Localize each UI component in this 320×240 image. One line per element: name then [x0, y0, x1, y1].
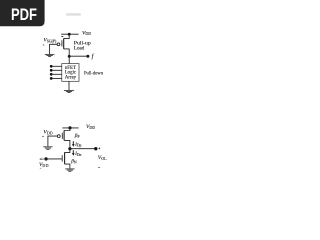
svg-text:VDD: VDD	[43, 130, 52, 136]
wire: gate lead to VSG source	[50, 44, 58, 54]
input dot D	[50, 77, 53, 80]
svg-text:VDD: VDD	[39, 162, 49, 168]
transistor M1 PMOS channel	[63, 38, 65, 49]
input wire B	[51, 69, 62, 71]
node dot at VDD	[68, 33, 71, 36]
wire: VDD to PMOS source	[64, 34, 69, 38]
transistor M1 PMOS gate bar	[61, 40, 63, 46]
supply tick	[61, 36, 63, 38]
node dot output	[68, 147, 71, 150]
input dot A	[50, 65, 53, 68]
wire: NMOS source to ground	[65, 164, 70, 168]
wire: PMOS gate to left VDD / ground	[48, 136, 58, 146]
nFET logic array box	[62, 64, 79, 82]
input dot C	[50, 73, 53, 76]
PDF badge	[0, 0, 45, 26]
svg-text:Load: Load	[74, 47, 85, 52]
current arrow IDp	[72, 141, 74, 144]
input arrow tick	[40, 158, 44, 160]
VDD rail (top)	[61, 33, 78, 35]
ground (pull-down)	[64, 91, 74, 93]
wire: box bottom to ground	[68, 81, 70, 90]
minus sign (left VDD)	[42, 135, 44, 137]
wire: output node to VOL terminal	[70, 148, 96, 150]
svg-text:Pull-down: Pull-down	[84, 72, 103, 77]
transistor MN NMOS gate bar	[61, 155, 63, 162]
wire: PMOS drain down to output	[64, 49, 69, 64]
svg-text:PDF: PDF	[11, 5, 37, 24]
svg-text:VOL: VOL	[98, 155, 107, 161]
page background	[0, 0, 149, 198]
wire: PMOS drain down to node	[64, 140, 70, 148]
plus sign VOL	[99, 147, 101, 149]
transistor MN NMOS channel	[64, 152, 66, 164]
terminal dot VOL	[94, 147, 97, 150]
input wire A	[51, 65, 62, 67]
transistor M1 PMOS gate bubble	[57, 43, 60, 46]
node f junction dot	[68, 55, 71, 58]
input dot B	[50, 69, 53, 72]
transistor MP PMOS gate bubble	[57, 135, 60, 138]
wire: VDD to PMOS source	[64, 128, 70, 131]
faint page header text	[66, 13, 81, 15]
minus sign (input)	[40, 167, 41, 169]
VDD rail (top)	[62, 127, 78, 129]
ground (VSG source)	[45, 54, 55, 56]
minus sign of VSG	[43, 44, 45, 46]
svg-text:VDD: VDD	[86, 124, 95, 130]
transistor MP PMOS channel	[63, 130, 65, 140]
node dot at VDD	[68, 126, 71, 129]
ground (left, gate bias)	[43, 147, 52, 150]
wire: output to f terminal	[69, 55, 88, 57]
ground (NMOS source)	[65, 169, 74, 171]
svg-text:Array: Array	[65, 75, 77, 80]
wire: node to NMOS drain	[65, 149, 70, 153]
svg-text:VDD: VDD	[82, 30, 91, 36]
wire: NMOS gate lead to input terminal	[46, 158, 62, 160]
input wire C	[51, 73, 62, 75]
transistor MP PMOS gate bar	[61, 133, 63, 139]
terminal dot input	[44, 157, 47, 160]
input wire D	[51, 77, 62, 79]
current arrow IDn	[72, 150, 74, 153]
minus sign VOL	[98, 166, 100, 168]
terminal dot f	[86, 55, 89, 58]
